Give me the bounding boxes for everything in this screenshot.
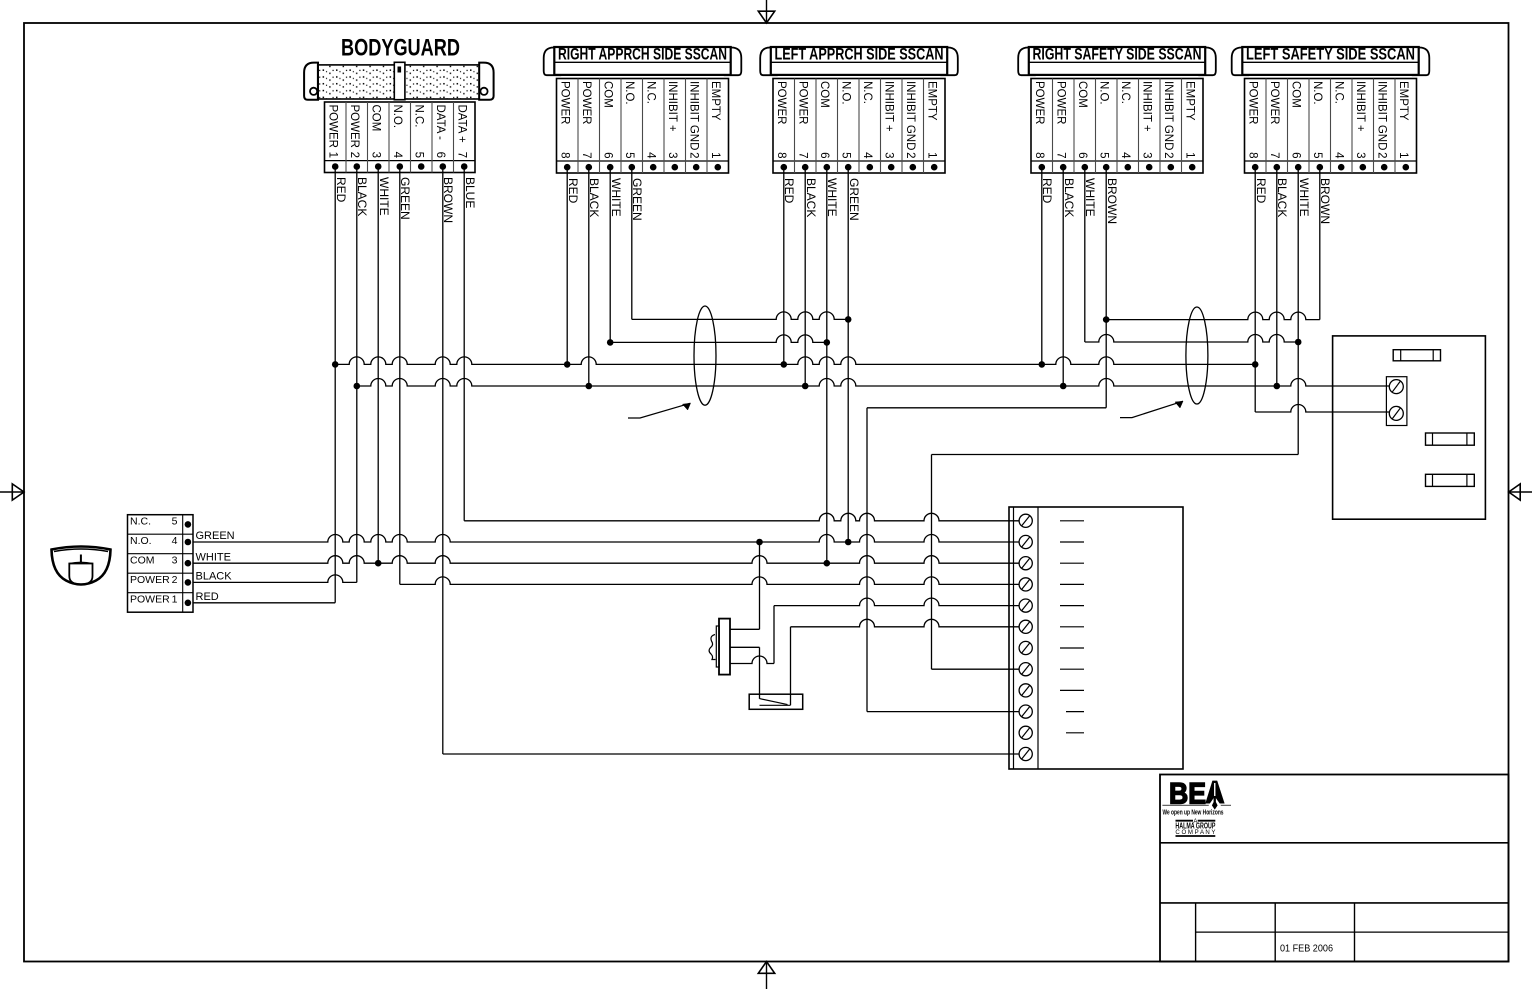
cable bundle marker left	[694, 306, 716, 405]
svg-text:WHITE: WHITE	[377, 177, 391, 216]
wire left apprch RED drop	[783, 167, 785, 364]
svg-text:N.C.: N.C.	[645, 81, 657, 104]
BODYGUARD title	[341, 35, 460, 62]
wire right apprch GREEN drop + link	[632, 167, 848, 319]
svg-text:POWER: POWER	[1268, 81, 1280, 124]
svg-text:N.C.: N.C.	[861, 81, 873, 104]
svg-text:4: 4	[172, 535, 178, 547]
svg-text:EMPTY: EMPTY	[1184, 81, 1196, 121]
wire power bus (-)	[357, 379, 1390, 386]
svg-text:2: 2	[904, 152, 916, 158]
svg-text:4: 4	[1119, 152, 1131, 159]
svg-text:1: 1	[172, 594, 178, 606]
svg-text:COM: COM	[602, 81, 614, 108]
wire key switch bottom to controller row5	[730, 598, 1019, 663]
svg-text:RIGHT APPRCH SIDE SSCAN: RIGHT APPRCH SIDE SSCAN	[558, 45, 727, 63]
svg-text:COM: COM	[130, 555, 155, 567]
wire GREEN row to controller row2	[193, 535, 1019, 543]
svg-text:BLACK: BLACK	[1062, 178, 1076, 217]
screw terminal block TB1	[1386, 377, 1407, 426]
svg-text:6: 6	[818, 152, 830, 158]
frame arrow left	[0, 484, 24, 500]
svg-text:7: 7	[456, 152, 468, 158]
svg-text:N.C.: N.C.	[1333, 81, 1345, 104]
svg-text:1: 1	[926, 152, 938, 158]
wire left apprch WHITE drop to row3	[826, 167, 828, 563]
svg-text:8: 8	[559, 152, 571, 158]
svg-text:1: 1	[327, 152, 339, 158]
wire right safety BROWN drop + route to controller row10	[867, 167, 1106, 711]
svg-text:N.O.: N.O.	[840, 81, 852, 105]
svg-text:POWER: POWER	[327, 105, 339, 148]
frame arrow bottom	[758, 961, 774, 989]
svg-text:INHIBIT +: INHIBIT +	[883, 81, 895, 132]
svg-text:4: 4	[861, 152, 873, 159]
svg-text:3: 3	[370, 152, 382, 158]
svg-text:POWER: POWER	[1247, 81, 1259, 124]
svg-text:N.O.: N.O.	[391, 105, 403, 129]
wire relay contact to controller row6	[791, 619, 1020, 705]
BODYGUARD terminal strip	[325, 102, 476, 173]
wire right apprch RED drop	[566, 167, 568, 364]
svg-text:2: 2	[1376, 152, 1388, 158]
svg-text:WHITE: WHITE	[196, 551, 231, 563]
svg-text:1: 1	[1184, 152, 1196, 158]
fuse F1	[1393, 350, 1440, 361]
svg-text:C O M P A N Y: C O M P A N Y	[1175, 829, 1216, 836]
svg-text:6: 6	[1076, 152, 1088, 158]
wire BODYGUARD BLACK drop	[356, 167, 358, 583]
svg-text:EMPTY: EMPTY	[1397, 81, 1409, 121]
svg-text:RED: RED	[196, 591, 219, 603]
wire left apprch BLACK drop	[804, 167, 806, 386]
svg-text:BLUE: BLUE	[463, 177, 477, 208]
svg-text:01 FEB 2006: 01 FEB 2006	[1280, 943, 1333, 955]
svg-text:5: 5	[1098, 152, 1110, 158]
svg-text:We open up New Horizons: We open up New Horizons	[1163, 807, 1224, 816]
fuse F2	[1426, 433, 1475, 445]
svg-text:COM: COM	[818, 81, 830, 108]
door controller terminal strip	[1009, 507, 1183, 769]
svg-text:N.O.: N.O.	[1098, 81, 1110, 105]
svg-text:EMPTY: EMPTY	[709, 81, 721, 121]
BEA logo	[1162, 778, 1231, 837]
svg-text:7: 7	[1055, 152, 1067, 158]
svg-text:WHITE: WHITE	[609, 178, 623, 217]
svg-text:WHITE: WHITE	[1297, 178, 1311, 217]
title block	[1160, 775, 1509, 962]
dome sensor icon	[52, 547, 111, 585]
key switch KS	[709, 619, 730, 675]
wire WHITE row to controller row3	[193, 556, 1019, 564]
svg-text:POWER: POWER	[1055, 81, 1067, 124]
wire right apprch BLACK drop	[588, 167, 590, 386]
svg-text:DATA +: DATA +	[456, 105, 468, 144]
svg-text:3: 3	[1141, 152, 1153, 158]
cable bundle marker right	[1186, 307, 1208, 404]
svg-text:GREEN: GREEN	[847, 178, 861, 221]
auxiliary device box	[1333, 336, 1486, 519]
wire left apprch GREEN drop to row2	[847, 167, 849, 542]
svg-text:INHIBIT +: INHIBIT +	[666, 81, 678, 132]
svg-text:8: 8	[1247, 152, 1259, 158]
wire BODYGUARD WHITE drop	[377, 167, 379, 564]
svg-text:POWER: POWER	[130, 594, 170, 606]
svg-text:8: 8	[1033, 152, 1045, 158]
wire BODYGUARD GREEN drop + run to controller row4	[400, 167, 1019, 585]
svg-text:POWER: POWER	[580, 81, 592, 124]
svg-text:7: 7	[1268, 152, 1280, 158]
wire right safety BLACK drop	[1062, 167, 1064, 386]
svg-text:RIGHT SAFETY SIDE SSCAN: RIGHT SAFETY SIDE SSCAN	[1033, 45, 1202, 63]
svg-text:3: 3	[172, 555, 178, 567]
svg-text:2: 2	[688, 152, 700, 158]
svg-text:5: 5	[1311, 152, 1323, 158]
frame arrow top	[758, 0, 774, 23]
svg-text:INHIBIT GND: INHIBIT GND	[1376, 81, 1388, 150]
svg-text:3: 3	[666, 152, 678, 158]
svg-text:POWER: POWER	[775, 81, 787, 124]
wire labels at contact block	[196, 530, 235, 603]
svg-text:LEFT SAFETY SIDE SSCAN: LEFT SAFETY SIDE SSCAN	[1246, 45, 1415, 63]
svg-text:INHIBIT GND: INHIBIT GND	[1162, 81, 1174, 150]
BODYGUARD sensor housing	[304, 62, 494, 100]
wire BLACK row joins BODYGUARD black	[193, 575, 357, 582]
svg-text:2: 2	[172, 574, 178, 586]
svg-text:GREEN: GREEN	[196, 530, 235, 542]
wire left safety BROWN drop + link	[1106, 167, 1320, 319]
wire left safety RED drop + branch to aux box screw2	[1255, 167, 1389, 412]
leader arrow left	[628, 403, 691, 418]
wire right safety RED drop	[1041, 167, 1043, 364]
svg-text:3: 3	[883, 152, 895, 158]
svg-text:BLACK: BLACK	[196, 571, 233, 583]
svg-text:8: 8	[775, 152, 787, 158]
wire right apprch WHITE drop + link	[610, 167, 827, 342]
svg-text:COM: COM	[1076, 81, 1088, 108]
sensor block: LEFT SAFETY SIDE SSCAN	[1232, 45, 1430, 173]
svg-text:7: 7	[580, 152, 592, 158]
svg-text:2: 2	[348, 152, 360, 158]
svg-text:6: 6	[602, 152, 614, 158]
wire power bus (+)	[335, 357, 1255, 364]
svg-text:1: 1	[709, 152, 721, 158]
wire RED row joins BODYGUARD red	[193, 602, 335, 604]
leader arrow right	[1120, 401, 1183, 417]
svg-text:6: 6	[1290, 152, 1302, 158]
svg-text:N.O.: N.O.	[623, 81, 635, 105]
sensor block: LEFT APPRCH SIDE SSCAN	[760, 45, 958, 173]
svg-text:4: 4	[1333, 152, 1345, 159]
svg-text:BODYGUARD: BODYGUARD	[341, 35, 460, 62]
svg-text:4: 4	[391, 152, 403, 159]
svg-text:LEFT APPRCH SIDE SSCAN: LEFT APPRCH SIDE SSCAN	[775, 45, 944, 63]
wire BODYGUARD BROWN drop + run to controller row12	[443, 167, 1019, 755]
wire colour labels	[334, 177, 1332, 224]
wire key switch middle down to relay contact	[730, 647, 760, 699]
svg-text:N.C.: N.C.	[1119, 81, 1131, 104]
svg-text:4: 4	[645, 152, 657, 159]
svg-text:EMPTY: EMPTY	[926, 81, 938, 121]
svg-text:POWER: POWER	[1033, 81, 1045, 124]
svg-text:1: 1	[1397, 152, 1409, 158]
sensor block: RIGHT SAFETY SIDE SSCAN	[1018, 45, 1216, 173]
relay contact SW	[749, 694, 803, 709]
svg-text:RED: RED	[1254, 178, 1268, 204]
svg-text:2: 2	[1162, 152, 1174, 158]
sensor block: RIGHT APPRCH SIDE SSCAN	[544, 45, 742, 173]
wire BODYGUARD RED drop	[334, 167, 336, 603]
sensor contact block (N.C./N.O./COM/POWER)	[128, 515, 194, 613]
svg-text:COM: COM	[370, 105, 382, 132]
svg-text:5: 5	[623, 152, 635, 158]
svg-text:3: 3	[1354, 152, 1366, 158]
fuse F3	[1426, 474, 1475, 486]
svg-text:BROWN: BROWN	[1105, 178, 1119, 224]
svg-text:N.C.: N.C.	[413, 105, 425, 128]
svg-text:COM: COM	[1290, 81, 1302, 108]
svg-text:5: 5	[413, 152, 425, 158]
svg-text:6: 6	[434, 152, 446, 158]
svg-text:POWER: POWER	[797, 81, 809, 124]
svg-text:RED: RED	[334, 177, 348, 203]
svg-text:INHIBIT GND: INHIBIT GND	[904, 81, 916, 150]
svg-text:N.C.: N.C.	[130, 516, 151, 528]
svg-text:7: 7	[797, 152, 809, 158]
svg-text:BLACK: BLACK	[804, 178, 818, 217]
svg-text:POWER: POWER	[130, 574, 170, 586]
svg-text:POWER: POWER	[559, 81, 571, 124]
svg-text:POWER: POWER	[348, 105, 360, 148]
svg-text:N.O.: N.O.	[130, 535, 152, 547]
svg-text:5: 5	[840, 152, 852, 158]
wire left safety BLACK drop	[1276, 167, 1278, 386]
svg-text:INHIBIT +: INHIBIT +	[1141, 81, 1153, 132]
wire left safety WHITE drop + route to controller row8	[932, 167, 1299, 669]
wire key switch top to row2 junction	[730, 542, 760, 629]
svg-text:N.O.: N.O.	[1311, 81, 1323, 105]
svg-text:5: 5	[172, 516, 178, 528]
wire right safety WHITE drop + link	[1085, 167, 1298, 342]
wire BODYGUARD BLUE drop + run to controller row1	[464, 167, 1019, 521]
svg-text:INHIBIT +: INHIBIT +	[1354, 81, 1366, 132]
svg-text:RED: RED	[566, 178, 580, 204]
junction dots	[332, 316, 1302, 566]
frame arrow right	[1509, 484, 1532, 500]
svg-text:DATA -: DATA -	[434, 105, 446, 141]
svg-text:INHIBIT GND: INHIBIT GND	[688, 81, 700, 150]
